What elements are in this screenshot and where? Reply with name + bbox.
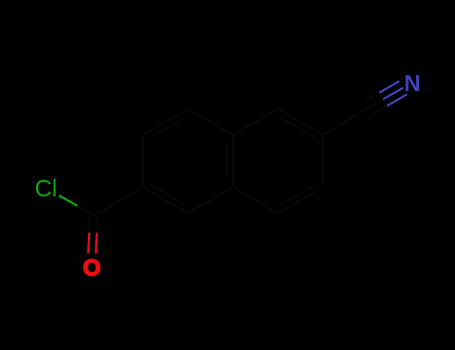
wire: ring bond C4-C4a (left ring upper-right edge) xyxy=(188,109,233,135)
double bond C=O dark half line 2 xyxy=(88,215,91,234)
double bond C=O red half line 2 xyxy=(87,233,90,254)
wire: ring bond C8a-C1 (left ring lower-right edge) xyxy=(188,187,233,213)
wire: ring bond C5-C4a (right ring upper-left edge) xyxy=(233,109,278,135)
wire: bond C(carbonyl)-Cl dark half xyxy=(78,206,97,216)
wire: ring bond C4a-C8a (central) xyxy=(232,135,234,187)
double bond C=O red half line 1 xyxy=(95,233,98,254)
triple bond C#N lower blue half xyxy=(387,94,407,106)
double bond C=O dark half line 1 xyxy=(96,215,99,234)
wire: ring bond C6-C5 (right ring upper-right edge) xyxy=(278,109,323,135)
bond C(carbonyl)-Cl green half xyxy=(59,196,78,206)
svg-text:Cl: Cl xyxy=(35,175,58,202)
wire: ring bond C4a-C8a inner aromatic line xyxy=(226,142,228,180)
triple bond C#N upper blue half xyxy=(379,81,399,93)
triple bond C#N center blue half xyxy=(383,88,403,100)
wire: bond C6-CH(nitrile carbon) xyxy=(323,109,367,135)
wire: bond C2-C(=O) carbonyl substituent xyxy=(97,187,144,215)
triple bond C#N upper dark half xyxy=(363,92,381,102)
wire: ring bond C8-C7 inner aromatic line xyxy=(280,184,316,205)
wire: ring bond C1-C2 inner aromatic line xyxy=(150,184,186,205)
wire: ring bond C7-C6 (right ring right edge) xyxy=(322,135,324,187)
svg-text:N: N xyxy=(404,70,421,96)
wire: ring bond C3-C4 inner aromatic line xyxy=(150,117,186,138)
svg-text:O: O xyxy=(83,255,101,281)
wire: ring bond C8-C7 (right ring lower-right edge) xyxy=(278,187,323,213)
wire: ring bond C8a-C8 (right ring lower-left edge) xyxy=(233,187,278,213)
wire: ring bond C6-C5 inner aromatic line xyxy=(280,117,316,138)
triple bond C#N center dark half xyxy=(367,98,385,108)
wire: ring bond C1-C2 (left ring lower-left edge) xyxy=(143,187,188,213)
wire: ring bond C2-C3 (left ring left edge) xyxy=(142,135,144,187)
wire: ring bond C3-C4 (left ring upper-left edge) xyxy=(143,109,188,135)
triple bond C#N lower dark half xyxy=(371,105,389,115)
